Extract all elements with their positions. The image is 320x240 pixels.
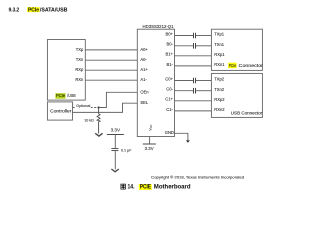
svg-text:TXp2: TXp2 <box>214 77 225 82</box>
wire controller to SEL <box>73 103 138 112</box>
box PCIe Connector <box>211 29 262 70</box>
box PCIe/USB (host) <box>47 40 85 101</box>
wire C1+ to RXp2 <box>175 100 212 102</box>
svg-text:TXn: TXn <box>76 57 84 62</box>
svg-text:GND: GND <box>165 130 174 135</box>
svg-text:TXn2: TXn2 <box>214 87 225 92</box>
svg-text:Motherboard: Motherboard <box>154 185 191 191</box>
wire VCC to rail <box>149 137 151 145</box>
svg-text:PCIe: PCIe <box>229 63 237 68</box>
svg-text:RXn: RXn <box>75 77 84 82</box>
svg-text:A1+: A1+ <box>140 67 148 72</box>
svg-text:A0+: A0+ <box>140 47 148 52</box>
wire cap to TXp2 <box>196 80 211 82</box>
wire C1- to RXn2 <box>175 110 212 112</box>
svg-text:RXp: RXp <box>75 67 84 72</box>
mux U1 HD3SS3212-Q1 <box>137 24 174 137</box>
svg-text:Connector: Connector <box>239 63 264 68</box>
ground arrow under resistor <box>95 133 102 136</box>
wire cap to TXn2 <box>196 90 211 92</box>
wire cap to TXn1 <box>196 45 211 47</box>
svg-text:PCIe: PCIe <box>56 93 66 98</box>
svg-text:14.: 14. <box>128 185 135 191</box>
svg-text:A0-: A0- <box>140 57 147 62</box>
svg-text:RXp1: RXp1 <box>214 52 225 57</box>
svg-text:RXp2: RXp2 <box>214 97 225 102</box>
svg-text:Controller: Controller <box>50 108 72 113</box>
resistor 10 kOhm <box>97 108 100 134</box>
svg-text:0.1 µF: 0.1 µF <box>121 148 132 152</box>
wire rail to cap <box>114 135 116 149</box>
svg-text:B0+: B0+ <box>165 31 173 36</box>
svg-text:RXn2: RXn2 <box>214 107 225 112</box>
svg-text:RXn1: RXn1 <box>214 62 225 67</box>
wire TXp to A0+ <box>85 49 137 51</box>
svg-text:PCIe: PCIe <box>28 7 39 13</box>
svg-text:PCIE: PCIE <box>140 185 151 191</box>
section heading 9.3.2 PCIe/SATA/USB <box>9 7 68 13</box>
supply rail 3.3V (VCC) <box>143 144 156 151</box>
svg-text:C1+: C1+ <box>165 97 173 102</box>
svg-text:USB Connector: USB Connector <box>231 111 263 116</box>
svg-text:TXp: TXp <box>76 47 84 52</box>
svg-text:C0+: C0+ <box>165 76 173 81</box>
svg-text:TXp1: TXp1 <box>214 32 225 37</box>
wire B1+ to RXp1 <box>175 55 212 57</box>
capacitor on B0- <box>194 43 196 49</box>
svg-text:3.3V: 3.3V <box>111 127 121 132</box>
wire B0+ to cap <box>175 35 194 37</box>
capacitor on C0+ <box>194 78 196 84</box>
label PCIe/USB <box>55 93 75 99</box>
wire TXn to A0- <box>85 59 137 61</box>
wire GND to ground <box>175 133 188 140</box>
wire cap to ground <box>114 151 116 169</box>
capacitor on C0- <box>194 88 196 94</box>
svg-text:10 kΩ: 10 kΩ <box>84 119 94 123</box>
ground arrow at GND <box>186 140 190 143</box>
wire C0- to cap <box>175 90 194 92</box>
node junction <box>98 106 100 108</box>
supply rail 3.3V (decoupling) <box>107 127 124 134</box>
capacitor on B0+ <box>194 33 196 39</box>
svg-text:OEn: OEn <box>140 89 149 94</box>
box Controller <box>47 102 72 120</box>
wire cap to TXp1 <box>196 35 211 37</box>
svg-text:/USB: /USB <box>67 93 76 98</box>
wire B0- to cap <box>175 45 194 47</box>
svg-text:Copyright © 2018, Texas Instru: Copyright © 2018, Texas Instruments Inco… <box>151 175 244 180</box>
wire RXn to A1- <box>85 79 137 81</box>
wire C0+ to cap <box>175 80 194 82</box>
CJK glyph tu (figure) drawn as strokes <box>121 184 126 189</box>
wire node to OEn <box>99 92 138 107</box>
svg-text:A1-: A1- <box>140 77 147 82</box>
figure caption <box>121 184 191 191</box>
svg-text:SEL: SEL <box>140 100 148 105</box>
ground arrow under cap <box>111 169 118 172</box>
capacitor 0.1 uF <box>111 149 118 151</box>
svg-text:C0-: C0- <box>166 87 173 92</box>
label Optional <box>76 106 91 109</box>
svg-text:B0-: B0- <box>167 42 174 47</box>
wire B1- to RXn1 <box>175 65 212 67</box>
svg-text:9.3.2: 9.3.2 <box>9 7 20 13</box>
wire RXp to A1+ <box>85 69 137 71</box>
box USB Connector <box>211 73 262 117</box>
svg-text:/SATA/USB: /SATA/USB <box>40 7 68 13</box>
svg-text:3.3V: 3.3V <box>145 146 154 151</box>
label PCIe Connector <box>228 63 263 68</box>
svg-text:TXn1: TXn1 <box>214 42 225 47</box>
svg-text:Optional: Optional <box>76 103 90 108</box>
svg-text:B1-: B1- <box>167 62 174 67</box>
svg-text:B1+: B1+ <box>165 52 173 57</box>
svg-text:C1-: C1- <box>166 107 173 112</box>
svg-text:HD3SS3212-Q1: HD3SS3212-Q1 <box>143 24 175 29</box>
wire optional (dashed) controller to node <box>73 107 99 109</box>
